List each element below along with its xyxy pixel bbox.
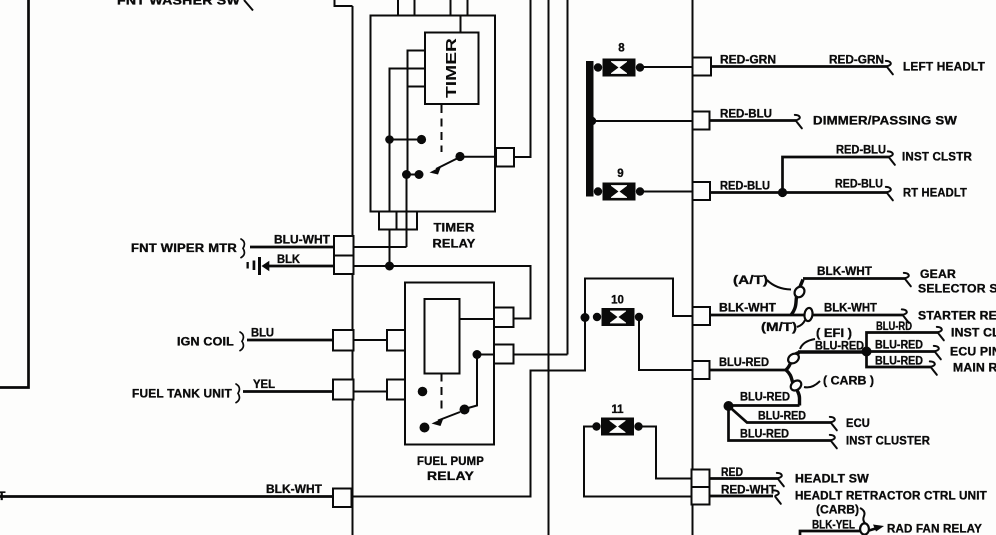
svg-text:BLU-RED: BLU-RED (719, 357, 769, 369)
node: connector box BLK-WHT (333, 489, 352, 508)
wire: fuse11 feed from below (584, 427, 692, 497)
node: inline connector box BLU-2 (387, 330, 407, 351)
wire: timer arm to right tab (460, 156, 496, 158)
svg-text:HEADLT RETRACTOR CTRL UNIT: HEADLT RETRACTOR CTRL UNIT (795, 489, 987, 503)
timer switch arm (455, 152, 464, 161)
svg-text:BLK: BLK (277, 254, 301, 266)
svg-text:10: 10 (611, 295, 624, 307)
timer dashed actuator line (441, 105, 443, 152)
svg-text:BLU-RD: BLU-RD (876, 321, 912, 333)
svg-text:BLU-RED: BLU-RED (758, 411, 806, 423)
svg-text:RED-GRN: RED-GRN (720, 55, 776, 67)
wire: fuse8 to connector (639, 66, 692, 68)
node: connector box row5 blu-red (693, 361, 710, 379)
wire: A/T branch curve (791, 280, 803, 316)
node: connector box row1 fuse8 (693, 58, 712, 76)
wire: BLU into relay coil (407, 339, 425, 341)
svg-text:RED-WHT: RED-WHT (721, 485, 776, 497)
svg-text:(M/T): (M/T) (761, 322, 797, 334)
wire: BLU-WHT to timer terminal (354, 246, 407, 248)
svg-text:( CARB ): ( CARB ) (823, 376, 874, 388)
wire RED-BLU dimmer (710, 119, 797, 122)
svg-text:BLU-RED: BLU-RED (740, 429, 789, 441)
wire BLU-RED carb to junction (729, 404, 800, 407)
node: YEL contact dot (418, 387, 428, 397)
node: EFI junction (862, 347, 872, 357)
wire: tab2 output to riser (514, 354, 568, 356)
svg-text:FNT WASHER SW: FNT WASHER SW (117, 0, 240, 8)
timer block U2 (425, 33, 479, 105)
node: connector box YEL (333, 380, 354, 400)
svg-text:LEFT HEADLT: LEFT HEADLT (903, 60, 985, 74)
wire RED-BLU inst clstr (783, 157, 891, 193)
wire: timer pin1/pin3 to contact C (408, 51, 426, 175)
node: connector box row6 red (692, 470, 710, 488)
svg-text:YEL: YEL (253, 379, 275, 391)
svg-text:INST CLUSTER: INST CLUSTER (846, 434, 930, 448)
svg-text:RT HEADLT: RT HEADLT (903, 186, 967, 200)
node: BLK junction (385, 262, 394, 271)
wire: BLK to fuel pump relay tab1 (354, 266, 531, 319)
svg-text:FNT WIPER MTR: FNT WIPER MTR (131, 241, 237, 255)
svg-text:MAIN RELAY: MAIN RELAY (953, 361, 996, 375)
wire BLK-WHT starter main (710, 314, 903, 317)
svg-text:ECU PIN: ECU PIN (950, 345, 996, 359)
connector loop EFI (786, 352, 801, 366)
svg-text:RED-BLU: RED-BLU (836, 145, 886, 157)
svg-text:BLU-RED: BLU-RED (815, 341, 864, 353)
svg-text:BLK-WHT: BLK-WHT (719, 303, 776, 315)
node: fuel relay tab1 (494, 308, 514, 328)
wire: CARB branch curve (786, 370, 800, 406)
node: connector box BLU (333, 330, 354, 351)
wire RED-WHT retractor (710, 495, 774, 498)
svg-text:BLU-RED: BLU-RED (740, 392, 790, 404)
wire: left vertical bus (352, 6, 354, 535)
node: fuel relay tab2 (494, 345, 514, 364)
wire RED headlight sw (710, 477, 780, 480)
wire: timer pin2 down to contact A and terminal (390, 69, 426, 267)
ground (247, 262, 249, 269)
wire BLK-WHT gear selector (803, 277, 906, 280)
relay K2 fuel pump relay outline (405, 283, 494, 445)
svg-text:HEADLT SW: HEADLT SW (795, 472, 869, 486)
svg-text:11: 11 (611, 404, 624, 416)
svg-text:TIMER: TIMER (434, 221, 475, 235)
node: connector box BLU-WHT (334, 236, 354, 256)
wire: fuse10 arch to BLK-WHT connector (585, 279, 692, 318)
svg-text:8: 8 (618, 43, 625, 55)
svg-text:RED: RED (721, 467, 743, 479)
node: fuse10 feed junction (581, 313, 590, 322)
svg-text:BLK-WHT: BLK-WHT (824, 303, 877, 315)
node C: timer lower contacts (407, 174, 420, 176)
svg-text:BLU-RED: BLU-RED (875, 356, 923, 368)
node A: timer contact pair (390, 139, 422, 141)
svg-text:INST CLUSTER: INST CLUSTER (951, 326, 996, 340)
wire BLU-RED efi main (710, 369, 787, 372)
svg-text:RELAY: RELAY (433, 237, 476, 251)
svg-text:RED-GRN: RED-GRN (829, 55, 884, 67)
svg-text:INST CLSTR: INST CLSTR (902, 150, 972, 164)
connector loop rad fan (860, 523, 869, 534)
wire: right vertical bus (692, 0, 694, 535)
node: connector box row7 red-wht (692, 487, 710, 505)
wire: BLU continues (354, 339, 388, 341)
node: connector box row4 blk-wht (693, 307, 711, 325)
wire RED-BLU rt headlight (710, 191, 888, 194)
svg-text:STARTER RELAY: STARTER RELAY (918, 309, 996, 323)
svg-text:BLK-WHT: BLK-WHT (266, 484, 322, 496)
node: connector box row3 fuse9 (693, 182, 711, 200)
svg-text:BLU-RED: BLU-RED (875, 340, 923, 352)
wire: left edge feeder vertical (0, 0, 29, 388)
svg-text:9: 9 (617, 168, 623, 180)
connector loop M/T (804, 307, 814, 321)
wire BLU-RED ecu pin (867, 350, 937, 353)
connector loop CARB (789, 378, 804, 392)
node: fixed contact dot (420, 423, 430, 433)
svg-text:RED-BLU: RED-BLU (720, 109, 772, 121)
fuel pump relay coil box (425, 299, 460, 374)
wire BLU-RD inst cl (867, 333, 940, 352)
svg-text:SELECTOR SW: SELECTOR SW (918, 282, 996, 296)
svg-text:(CARB): (CARB) (816, 505, 859, 517)
svg-text:RELAY: RELAY (427, 469, 474, 483)
svg-text:GEAR: GEAR (920, 267, 956, 281)
node: CARB junction (724, 401, 734, 411)
svg-text:BLK-WHT: BLK-WHT (817, 266, 872, 278)
wire BLU-RED main relay (867, 352, 933, 368)
fuel relay dashed actuator (441, 374, 443, 412)
node: connector box BLK (334, 256, 354, 275)
wire BLU-RED ecu (729, 406, 833, 423)
svg-text:IGN COIL: IGN COIL (177, 335, 234, 349)
node: junction on bar (588, 117, 596, 125)
relay U1 timer relay outline (371, 16, 496, 212)
svg-text:RAD FAN RELAY: RAD FAN RELAY (887, 522, 982, 535)
wire: timer tab feed up (514, 0, 531, 157)
svg-text:BLU-WHT: BLU-WHT (274, 235, 330, 247)
wire BLU-RED thick to junction (798, 350, 867, 353)
wire: fuse9 to connector (639, 191, 692, 193)
wire BLU-RED inst cluster (729, 406, 833, 441)
wire: BLK-WHT to fuse 10 feed (352, 318, 586, 497)
svg-text:FUEL PUMP: FUEL PUMP (417, 454, 484, 468)
wire: terminal riser to BLU-WHT (406, 175, 408, 248)
svg-text:(A/T): (A/T) (733, 275, 768, 287)
wire: coil right pin to tab1 (460, 318, 495, 320)
wire: fuse10 to BLU-RED connector (639, 317, 692, 370)
node: inline connector box YEL-2 (387, 380, 407, 400)
wire: bar to dimmer connector (593, 120, 692, 122)
node: timer relay bottom terminals (379, 212, 397, 230)
fuse bar supply (thick) (586, 61, 594, 197)
svg-text:DIMMER/PASSING SW: DIMMER/PASSING SW (813, 114, 957, 128)
connector loop A/T (793, 285, 807, 299)
wire: fuse11 to RED connector (639, 427, 692, 479)
wire RED-GRN left headlight (711, 65, 888, 68)
svg-text:( EFI ): ( EFI ) (816, 328, 852, 340)
node: timer relay right tab (496, 148, 514, 167)
wire: tab2 to switch junction (465, 355, 495, 410)
wire: EFI branch curve (786, 353, 800, 371)
wire: YEL into relay contact (407, 391, 423, 393)
wire: timer top pin (460, 16, 462, 33)
svg-text:RED-BLU: RED-BLU (720, 181, 770, 193)
node: left bus connector box (top, cut off) (335, 0, 353, 6)
svg-text:RED-BLU: RED-BLU (835, 179, 883, 191)
svg-text:BLU: BLU (251, 328, 274, 340)
fuel relay switch arm (460, 405, 470, 415)
wire: second vertical bus (548, 0, 550, 535)
svg-text:FUEL TANK UNIT: FUEL TANK UNIT (132, 387, 232, 401)
node: connector box row2 dimmer (693, 112, 710, 130)
wire: rad fan arrow (869, 528, 879, 531)
wire: YEL continues (354, 391, 388, 393)
svg-text:ECU: ECU (846, 416, 870, 430)
wire: fuel pump relay output riser (567, 0, 569, 355)
svg-text:TIMER: TIMER (443, 38, 460, 98)
wire: timer relay top stubs (398, 0, 468, 16)
